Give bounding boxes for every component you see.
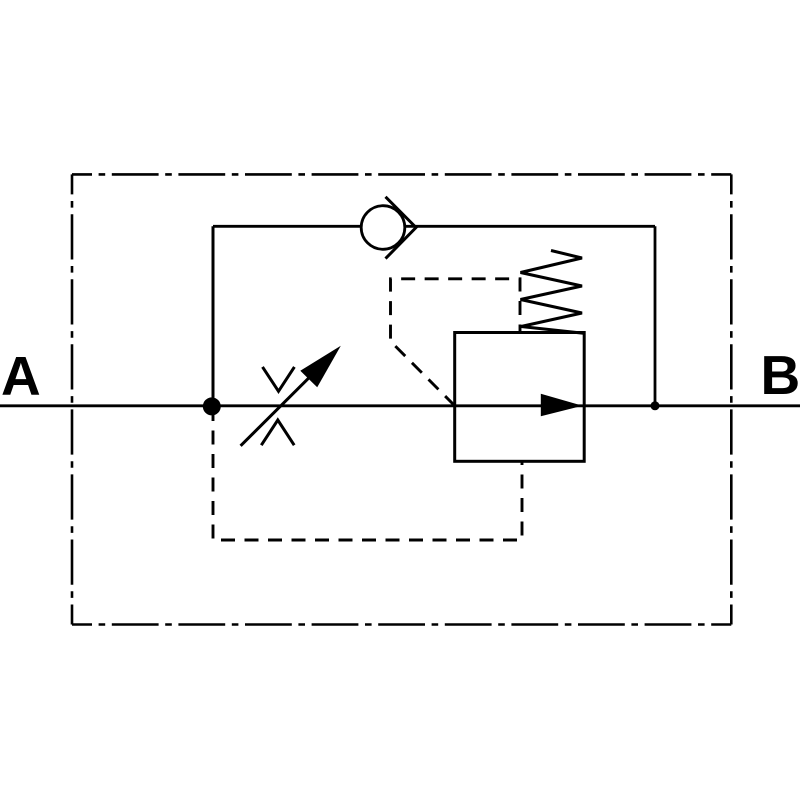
junction node on main line at A branch bbox=[203, 397, 221, 415]
svg-text:A: A bbox=[1, 345, 41, 407]
wire: bypass top line bbox=[213, 225, 655, 228]
flow arrow inside compensator bbox=[541, 394, 583, 417]
pilot line (dashed) from upstream to spring chamber bbox=[391, 279, 521, 406]
check valve (ball and seat) on bypass line bbox=[361, 197, 416, 259]
junction node on main line at B branch bbox=[651, 401, 660, 410]
enclosure boundary (dash-dot cartridge/manifold outline) bbox=[72, 174, 731, 624]
pilot line (dashed) from node A to compensator bottom bbox=[213, 407, 522, 540]
wire: riser from node A up to bypass line bbox=[212, 226, 215, 407]
main line port A to port B bbox=[0, 404, 800, 407]
variable throttle (adjustable restrictor) bbox=[241, 346, 341, 446]
compensator spring bbox=[521, 251, 584, 334]
svg-text:B: B bbox=[761, 344, 800, 406]
wire: bypass right drop to main line bbox=[654, 226, 657, 405]
pressure compensator body bbox=[455, 333, 585, 462]
